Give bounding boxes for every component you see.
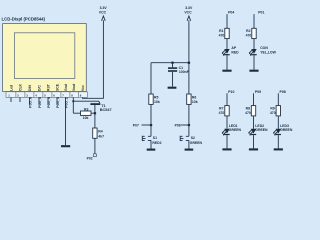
supply 3.3V VCC left — [99, 6, 107, 21]
resistor R5 — [149, 94, 153, 104]
ground C1 — [168, 87, 177, 89]
svg-text:Gnd: Gnd — [64, 84, 68, 91]
wire R9 to LED — [277, 116, 279, 129]
resistor R1 — [225, 28, 229, 38]
svg-text:470: 470 — [246, 34, 252, 38]
svg-text:P05_6: P05_6 — [28, 97, 32, 108]
junction rail-VCC — [188, 61, 191, 64]
svg-text:RST: RST — [46, 83, 50, 91]
svg-text:P08: P08 — [280, 90, 286, 94]
svg-text:RED2: RED2 — [152, 141, 161, 145]
wire pullup rail — [151, 62, 189, 64]
ground P04 branch — [222, 70, 231, 72]
svg-text:10k: 10k — [154, 100, 160, 104]
svg-text:DIN: DIN — [28, 85, 32, 91]
svg-text:Led: Led — [9, 85, 13, 91]
svg-text:P02: P02 — [87, 157, 93, 161]
junction rail-C1 — [171, 61, 174, 64]
wire P01 to R2 — [253, 14, 255, 28]
wire R8 to LED — [253, 116, 255, 129]
wire P04 to R1 — [226, 14, 228, 28]
wire pin8 down — [72, 98, 74, 114]
svg-text:GREEN: GREEN — [280, 128, 293, 132]
svg-text:RED: RED — [231, 51, 239, 55]
capacitor C1 100nF — [168, 63, 177, 87]
switch S1 — [142, 104, 151, 148]
port P02 pin square — [94, 154, 97, 157]
svg-text:470: 470 — [245, 111, 251, 115]
svg-text:4k7: 4k7 — [98, 135, 104, 139]
LCD pin header row — [6, 92, 87, 98]
transistor T1 BC547 — [90, 103, 100, 128]
svg-text:YEL,LOW: YEL,LOW — [260, 51, 276, 55]
svg-text:S1: S1 — [153, 136, 157, 140]
wire VCC2 drop — [188, 20, 190, 94]
resistor R7 — [225, 106, 229, 116]
wire LED to ground P09 — [253, 135, 255, 148]
ground P10 branch — [222, 148, 231, 150]
svg-text:BC547: BC547 — [100, 108, 112, 112]
wire R1 to LED — [226, 39, 228, 49]
wire P08 right to R9 — [277, 93, 279, 105]
svg-text:SCE: SCE — [55, 83, 59, 91]
svg-text:GREEN: GREEN — [190, 141, 203, 145]
wire LED to ground P08 right — [277, 135, 279, 148]
wire P08 stub — [181, 124, 189, 126]
ground S2 — [185, 149, 194, 151]
svg-text:GREEN: GREEN — [229, 128, 242, 132]
supply 3.3V VCC right — [184, 6, 193, 21]
resistor R8 — [251, 106, 255, 116]
wire pin7 to ground — [65, 98, 67, 146]
svg-text:P04: P04 — [228, 11, 234, 15]
resistor R4 — [93, 128, 97, 138]
svg-text:R7: R7 — [219, 106, 223, 110]
junction P07 tap — [150, 124, 153, 127]
svg-text:P01: P01 — [258, 11, 264, 15]
ground pin7 — [61, 145, 70, 147]
wire LED to ground P04 — [226, 55, 228, 69]
svg-text:P05_2: P05_2 — [64, 97, 68, 108]
svg-text:R2: R2 — [246, 29, 250, 33]
svg-text:S2: S2 — [191, 136, 195, 140]
svg-text:D/C: D/C — [37, 85, 41, 91]
wire pin6 — [56, 98, 58, 105]
wire P10 to R7 — [226, 93, 228, 105]
LED LED3 GREEN — [273, 129, 281, 136]
svg-text:GREEN: GREEN — [255, 128, 268, 132]
LED AP RED — [222, 49, 230, 56]
svg-text:470: 470 — [219, 34, 225, 38]
svg-text:P05_3: P05_3 — [56, 97, 60, 108]
svg-text:R9: R9 — [270, 106, 274, 110]
svg-text:R6: R6 — [192, 95, 196, 99]
svg-text:LCD-Displ (PCD8544): LCD-Displ (PCD8544) — [2, 17, 46, 22]
svg-text:R8: R8 — [246, 106, 250, 110]
svg-text:Vout: Vout — [72, 83, 76, 91]
svg-text:CON: CON — [260, 46, 268, 50]
svg-text:P05_5: P05_5 — [38, 97, 42, 108]
wire LED to ground P10 — [226, 135, 228, 148]
ground P01 branch — [249, 70, 258, 72]
svg-text:R1: R1 — [219, 29, 223, 33]
resistor R3 — [73, 111, 95, 115]
wire pin1 stub — [10, 98, 12, 103]
svg-text:100nF: 100nF — [179, 70, 189, 74]
ground P09 branch — [249, 148, 258, 150]
wire pin2 stub — [19, 98, 21, 103]
svg-text:AP: AP — [231, 46, 236, 50]
svg-text:Vcc: Vcc — [81, 85, 85, 91]
wire R2 to LED — [253, 39, 255, 49]
wire pin3 — [29, 98, 31, 105]
wire R4 to P02 — [94, 138, 96, 154]
LCD module LCD1 body — [3, 24, 87, 92]
svg-text:R5: R5 — [154, 95, 158, 99]
wire R7 to LED — [226, 116, 228, 129]
wire pin9 to VCC — [83, 20, 104, 98]
switch S2 — [180, 104, 189, 148]
wire S1 branch top — [150, 63, 152, 94]
svg-text:CLK: CLK — [18, 83, 22, 91]
wire collector net — [73, 101, 100, 103]
junction P08 tap — [188, 124, 191, 127]
svg-text:P10: P10 — [228, 90, 234, 94]
svg-text:P08: P08 — [175, 124, 181, 128]
LED CON YELLOW — [249, 49, 257, 56]
svg-text:P05_4: P05_4 — [47, 96, 51, 108]
svg-text:P09: P09 — [255, 90, 261, 94]
LED LED1 GREEN — [222, 129, 230, 136]
wire pin4 — [38, 98, 40, 105]
svg-text:R3: R3 — [84, 107, 88, 111]
svg-text:10k: 10k — [83, 116, 89, 120]
junction base node — [94, 112, 97, 115]
svg-text:10k: 10k — [192, 100, 198, 104]
svg-text:470: 470 — [270, 111, 276, 115]
ground S1 — [147, 149, 156, 151]
svg-text:470: 470 — [219, 111, 225, 115]
svg-text:R4: R4 — [98, 130, 102, 134]
wire P09 to R8 — [253, 93, 255, 105]
junction pin8-collector — [72, 100, 74, 102]
resistor R9 — [276, 106, 280, 116]
wire pin5 — [47, 98, 49, 105]
svg-text:VCC: VCC — [184, 10, 192, 14]
svg-text:VCC: VCC — [99, 10, 107, 14]
wire LED to ground P01 — [253, 55, 255, 69]
wire P07 stub — [142, 124, 152, 126]
svg-text:P07: P07 — [133, 124, 139, 128]
resistor R6 — [187, 94, 191, 104]
resistor R2 — [252, 28, 256, 38]
LED LED2 GREEN — [248, 129, 256, 136]
ground P08 right branch — [274, 148, 283, 150]
